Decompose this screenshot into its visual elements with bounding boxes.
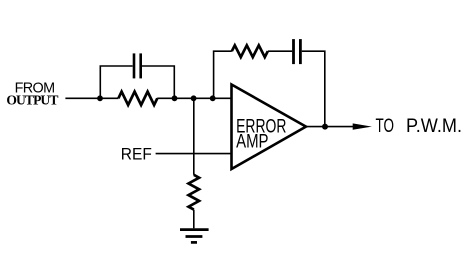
- resistor R2 (feedback): [232, 45, 268, 57]
- node D (junction dot): [210, 95, 216, 101]
- wire node B to node C: [175, 97, 194, 99]
- svg-text:P.W.M.: P.W.M.: [406, 116, 462, 137]
- wire node C to node D: [194, 97, 213, 99]
- node E (junction dot, output): [322, 124, 328, 130]
- wire node C down to resistor R3: [193, 98, 195, 175]
- wire resistor R1 to node B: [157, 97, 174, 99]
- capacitor C2 (feedback): [294, 39, 301, 64]
- node B (junction dot): [172, 95, 178, 101]
- wire op-amp output to arrow: [306, 126, 353, 128]
- wire resistor R3 to ground: [193, 210, 195, 229]
- resistor R3 (vertical, to ground): [189, 175, 200, 210]
- wire from OUTPUT label to node A: [65, 97, 100, 99]
- wire node D to op-amp input: [213, 97, 232, 99]
- svg-text:REF: REF: [121, 145, 152, 164]
- node label TO P.W.M.: [376, 116, 463, 137]
- wire resistor R2 to capacitor C2: [268, 50, 292, 52]
- wire right branch of capacitor C1 loop: [142, 66, 174, 98]
- ground: [180, 230, 209, 243]
- op-amp label ERROR AMP: [236, 117, 286, 153]
- op-amp U1 ERROR AMP: [232, 85, 307, 170]
- arrow to P.W.M.: [353, 123, 372, 129]
- wire left branch of capacitor C1 loop: [100, 66, 132, 98]
- node C (junction dot): [191, 95, 197, 101]
- wire node D up to feedback branch: [214, 51, 232, 98]
- wire node A to resistor R1: [100, 97, 118, 99]
- wire capacitor C2 to output node E: [302, 51, 325, 126]
- svg-text:TO: TO: [376, 116, 395, 137]
- wire REF to op-amp input: [156, 153, 232, 155]
- resistor R1 (horizontal, input): [118, 92, 157, 105]
- svg-text:OUTPUT: OUTPUT: [6, 93, 58, 108]
- capacitor C1 (parallel with R1): [134, 53, 141, 78]
- svg-text:AMP: AMP: [236, 131, 268, 152]
- node label FROM OUTPUT: [6, 80, 58, 107]
- node A (junction dot): [97, 95, 103, 101]
